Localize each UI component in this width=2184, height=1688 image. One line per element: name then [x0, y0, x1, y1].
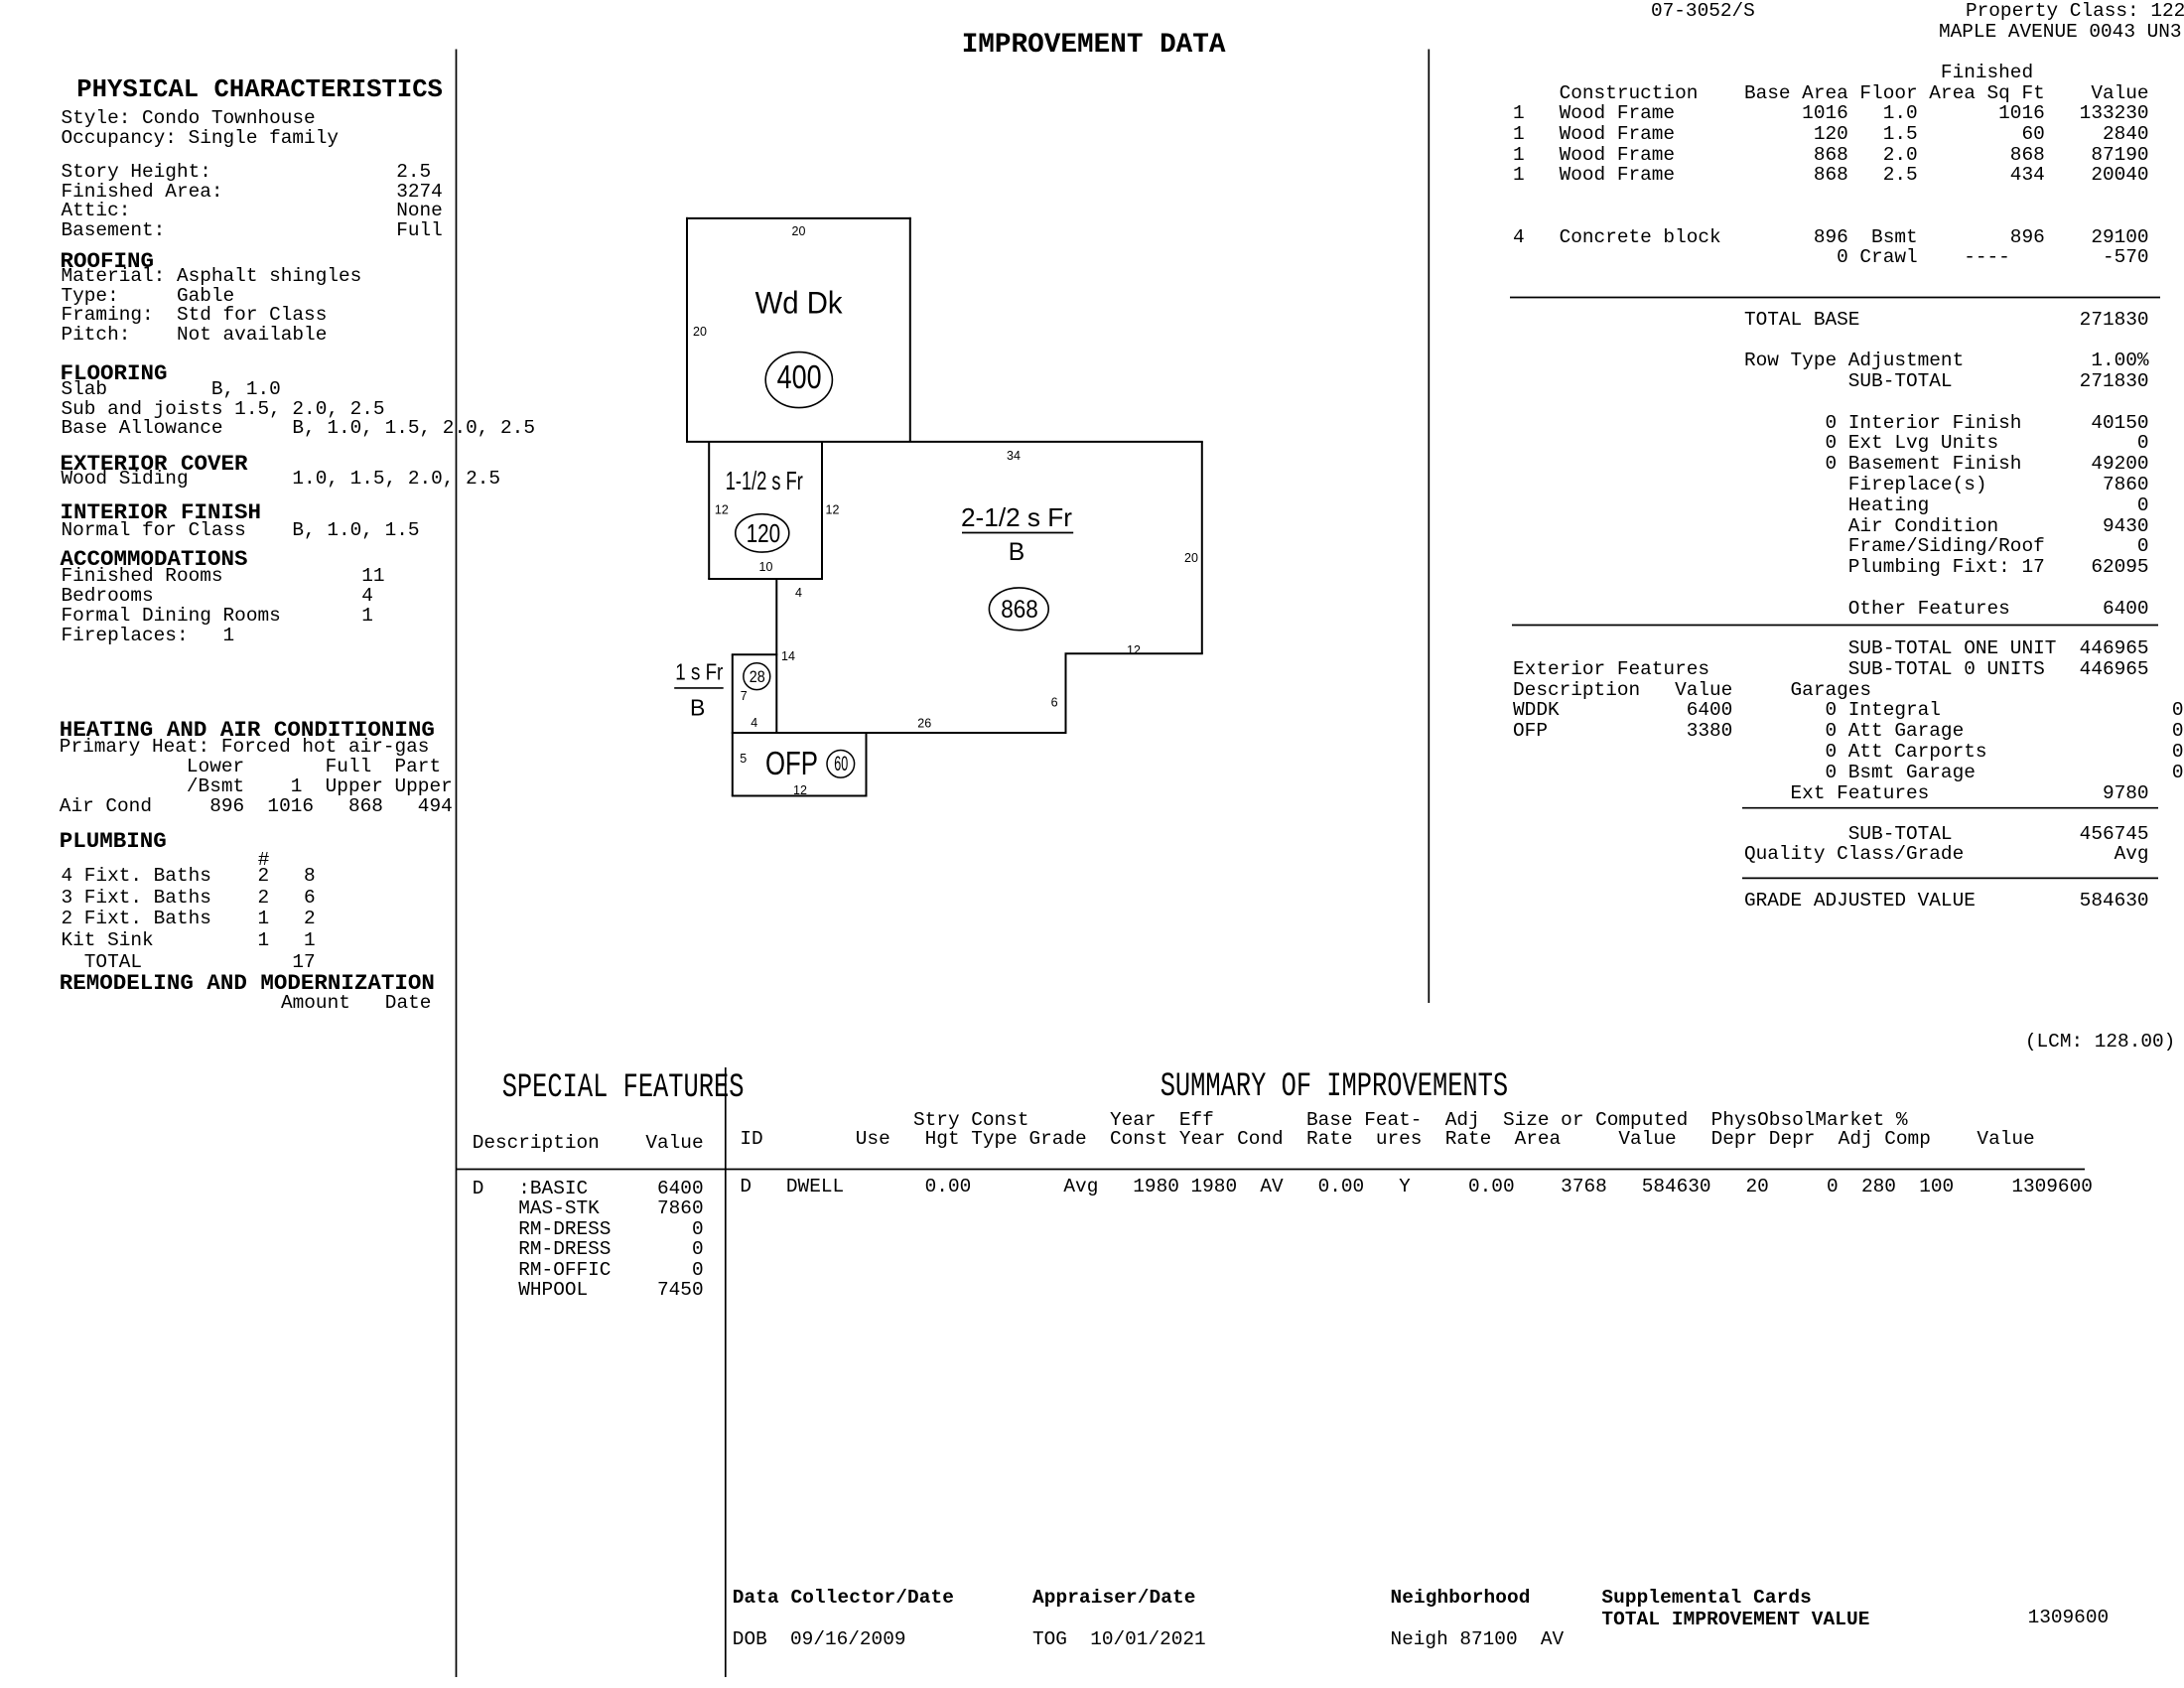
- svg-text:28: 28: [750, 667, 765, 686]
- svg-text:120: 120: [747, 518, 781, 548]
- svg-text:868: 868: [1001, 596, 1038, 624]
- svg-text:2-1/2 s Fr: 2-1/2 s Fr: [961, 502, 1072, 532]
- svg-text:12: 12: [826, 503, 840, 517]
- svg-text:10: 10: [759, 560, 773, 574]
- svg-text:12: 12: [715, 502, 729, 516]
- svg-text:4: 4: [795, 586, 802, 600]
- svg-text:20: 20: [693, 325, 707, 339]
- svg-text:B: B: [690, 695, 705, 721]
- svg-text:1-1/2 s Fr: 1-1/2 s Fr: [726, 466, 803, 495]
- svg-text:26: 26: [917, 717, 931, 731]
- svg-text:6: 6: [1051, 696, 1058, 710]
- svg-text:7: 7: [741, 689, 748, 703]
- svg-text:20: 20: [792, 224, 806, 238]
- svg-text:20: 20: [1184, 551, 1198, 565]
- svg-text:Wd Dk: Wd Dk: [755, 285, 843, 321]
- svg-text:14: 14: [781, 649, 795, 663]
- svg-text:4: 4: [751, 716, 757, 730]
- svg-text:400: 400: [777, 359, 822, 396]
- svg-text:1 s Fr: 1 s Fr: [675, 659, 723, 685]
- svg-text:34: 34: [1007, 449, 1021, 463]
- svg-text:12: 12: [1127, 643, 1141, 657]
- svg-text:12: 12: [793, 783, 807, 797]
- svg-text:OFP: OFP: [765, 745, 818, 781]
- svg-text:60: 60: [834, 753, 848, 775]
- svg-text:B: B: [1009, 539, 1024, 566]
- svg-text:5: 5: [740, 752, 747, 766]
